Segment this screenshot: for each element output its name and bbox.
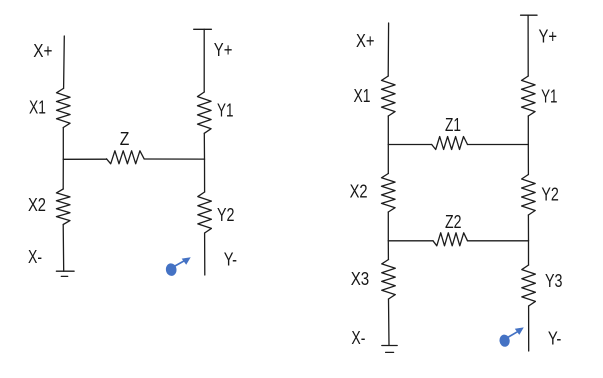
wire Y3 to Y- bbox=[528, 306, 530, 351]
svg-text:Y3: Y3 bbox=[545, 271, 563, 291]
wire X1 to node bbox=[62, 128, 64, 160]
resistor Y2 bbox=[198, 192, 212, 233]
wire node to Y2 bbox=[204, 159, 206, 192]
svg-text:Y-: Y- bbox=[548, 329, 562, 349]
svg-text:Y2: Y2 bbox=[541, 185, 559, 205]
ground bbox=[382, 346, 397, 353]
wire resistor Z2 to node 2 Y bbox=[468, 240, 529, 242]
svg-text:Z2: Z2 bbox=[445, 212, 462, 232]
svg-text:X1: X1 bbox=[29, 98, 46, 118]
svg-text:Y-: Y- bbox=[224, 250, 237, 270]
wire node 1 to X2 bbox=[387, 145, 389, 174]
wire Y2 to node 2 bbox=[527, 215, 529, 241]
resistor X3 bbox=[382, 260, 396, 300]
wire resistor Z1 to node 1 Y bbox=[468, 144, 529, 146]
resistor X1 bbox=[382, 76, 396, 116]
svg-text:X-: X- bbox=[351, 328, 365, 348]
svg-text:X2: X2 bbox=[28, 195, 46, 215]
wire X+ rail top segment bbox=[387, 23, 389, 76]
wire X2 to ground bbox=[62, 225, 65, 272]
resistor Z bbox=[107, 151, 145, 164]
svg-text:Z: Z bbox=[120, 129, 130, 149]
svg-text:X+: X+ bbox=[33, 41, 52, 61]
cursor pointer left bbox=[165, 257, 191, 276]
wire node 1 X to resistor Z1 bbox=[388, 144, 431, 146]
wire X1 to node 1 bbox=[387, 116, 389, 145]
wire X2 to node 2 bbox=[387, 212, 389, 241]
resistor Y3 bbox=[522, 265, 536, 306]
svg-text:Y1: Y1 bbox=[217, 100, 234, 120]
wire node to X2 bbox=[62, 159, 64, 189]
wire Y+ rail top segment bbox=[527, 15, 529, 76]
cursor pointer right bbox=[499, 327, 524, 347]
resistor Z1 bbox=[432, 137, 468, 150]
svg-text:Y+: Y+ bbox=[214, 40, 233, 60]
wire node 1 to Y2 bbox=[527, 145, 529, 175]
resistor Y1 bbox=[198, 92, 212, 133]
wire Y1 to node 1 bbox=[527, 116, 529, 145]
wire resistor Z to node Y bbox=[144, 158, 204, 160]
resistor Y2 bbox=[522, 175, 536, 216]
svg-text:Z1: Z1 bbox=[445, 115, 461, 135]
ground bbox=[56, 271, 74, 276]
terminal Y+ bar bbox=[521, 14, 537, 16]
wire Y+ rail top segment bbox=[203, 29, 205, 92]
resistor Z2 bbox=[433, 233, 468, 246]
wire X3 to ground bbox=[388, 299, 391, 345]
svg-text:Y1: Y1 bbox=[541, 87, 557, 107]
svg-text:X+: X+ bbox=[356, 31, 375, 51]
wire node 2 X to resistor Z2 bbox=[388, 240, 433, 242]
wire Y2 to Y- bbox=[204, 233, 206, 275]
resistor Y1 bbox=[522, 76, 536, 116]
resistor X2 bbox=[382, 174, 396, 213]
terminal Y+ bar bbox=[194, 28, 212, 30]
svg-text:X-: X- bbox=[28, 247, 42, 267]
resistor X1 bbox=[57, 89, 71, 128]
wire Y1 to node bbox=[203, 133, 205, 159]
svg-text:Y2: Y2 bbox=[217, 205, 235, 225]
wire node 2 to X3 bbox=[387, 241, 389, 260]
resistor X2 bbox=[56, 189, 70, 225]
svg-text:X1: X1 bbox=[354, 86, 371, 106]
wire node 2 to Y3 bbox=[528, 241, 530, 265]
wire X+ rail top segment bbox=[63, 36, 66, 89]
svg-text:X3: X3 bbox=[351, 269, 370, 289]
svg-text:Y+: Y+ bbox=[539, 27, 558, 47]
svg-text:X2: X2 bbox=[350, 182, 368, 202]
wire node X to resistor Z bbox=[63, 158, 106, 160]
